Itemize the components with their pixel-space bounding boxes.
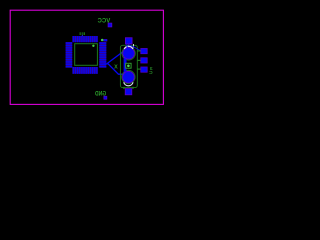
right pad 3 — [140, 67, 147, 73]
right pad 1 — [140, 48, 147, 54]
svg-text:C: C — [149, 70, 153, 76]
svg-text:X: X — [114, 65, 118, 71]
trace from top square pad into top circle — [127, 44, 128, 49]
VCC pad — [108, 23, 113, 28]
crystal inner arc top — [122, 47, 135, 60]
chip U? refdes text — [80, 32, 85, 35]
crystal bottom circular pad — [123, 71, 135, 83]
chip U? left pad column — [66, 42, 73, 68]
trace B: chip right pad to crystal top pad — [107, 52, 123, 64]
chip U? silkscreen body outline — [75, 44, 98, 66]
crystal bottom square pad — [125, 88, 132, 95]
crystal inner arc bottom — [122, 70, 135, 83]
chip U? right pad column — [99, 42, 106, 68]
via dot — [101, 39, 104, 42]
chip U? top pad row — [72, 36, 98, 42]
right pad 2 — [140, 57, 147, 63]
crystal center square with dot — [126, 63, 131, 68]
crystal top circular pad — [123, 48, 135, 60]
board outline / keepout border — [10, 10, 163, 104]
trace A: chip right pad to crystal bottom pad — [104, 64, 124, 80]
silkscreen stubs at outline bottom — [123, 87, 125, 89]
trace stub near via — [103, 39, 107, 41]
white highlight arcs — [124, 46, 133, 49]
GND pad — [104, 96, 108, 100]
crystal top square pad — [125, 37, 133, 44]
trace between crystal circular pads — [124, 57, 127, 74]
chip U? pin-1 dot — [92, 45, 94, 47]
silkscreen stubs to right pads — [137, 51, 140, 69]
chip U? bottom pad row — [72, 67, 98, 74]
trace D: top pad area to right pad 1 — [128, 45, 141, 51]
crystal X? outer silkscreen outline — [120, 45, 137, 87]
